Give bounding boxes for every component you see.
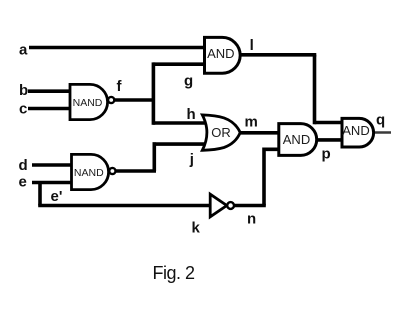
svg-text:AND: AND [342, 123, 369, 138]
svg-text:OR: OR [211, 125, 231, 140]
inverter U7 (NOT gate, input k output n) [210, 194, 234, 217]
wire a input [29, 46, 207, 50]
svg-text:b: b [19, 82, 28, 99]
OR gate U4 (inputs h,j) [202, 115, 240, 150]
wire g to AND U3 [153, 62, 208, 66]
svg-text:NAND: NAND [74, 167, 104, 179]
svg-text:e: e [19, 174, 27, 191]
svg-text:n: n [247, 211, 256, 228]
wire n horizontal to AND U5 [264, 148, 282, 152]
svg-text:h: h [187, 106, 196, 123]
wire b input [28, 89, 74, 93]
AND gate U5 (inputs m,n) [279, 124, 317, 156]
wire d input [32, 163, 75, 167]
wire j horizontal to OR U4 [153, 142, 213, 146]
wire m from OR U4 to AND U5 [238, 131, 282, 135]
wire c input [28, 107, 74, 111]
svg-text:AND: AND [283, 132, 310, 147]
NAND gate U2 (inputs d,e) [72, 154, 116, 189]
NAND gate U1 (inputs b,c) [70, 84, 114, 119]
wire l horizontal to AND U6 [315, 121, 346, 125]
svg-text:Fig. 2: Fig. 2 [153, 263, 196, 283]
svg-text:l: l [250, 37, 254, 54]
wire p from AND U5 to AND U6 [316, 138, 345, 142]
AND gate U3 (inputs a,g) [205, 37, 241, 73]
wire f from NAND U1 output [113, 98, 155, 102]
wire n vertical [262, 148, 266, 206]
svg-text:d: d [19, 157, 28, 174]
wire l vertical [313, 55, 317, 125]
svg-text:k: k [192, 220, 201, 237]
svg-text:p: p [322, 145, 331, 162]
svg-text:e': e' [51, 188, 63, 205]
svg-text:AND: AND [207, 46, 234, 61]
wire k long horizontal to inverter [38, 204, 212, 208]
svg-text:g: g [184, 73, 193, 90]
wire e input [32, 181, 75, 185]
svg-text:m: m [245, 114, 258, 131]
svg-text:q: q [376, 111, 385, 128]
wire f branch vertical [152, 62, 156, 124]
svg-text:j: j [189, 151, 194, 168]
wire from NAND U2 output [114, 169, 156, 173]
wire n from inverter output [233, 204, 266, 208]
wire h to OR U4 [153, 121, 212, 125]
wire q output [374, 131, 391, 134]
svg-text:c: c [19, 100, 27, 117]
wire j vertical [153, 142, 157, 171]
wire l from AND U3 output [239, 53, 316, 57]
wire e' branch vertical [38, 183, 42, 206]
svg-text:a: a [19, 42, 28, 59]
AND gate U6 (inputs l,p) [342, 118, 374, 147]
svg-text:NAND: NAND [73, 97, 103, 109]
